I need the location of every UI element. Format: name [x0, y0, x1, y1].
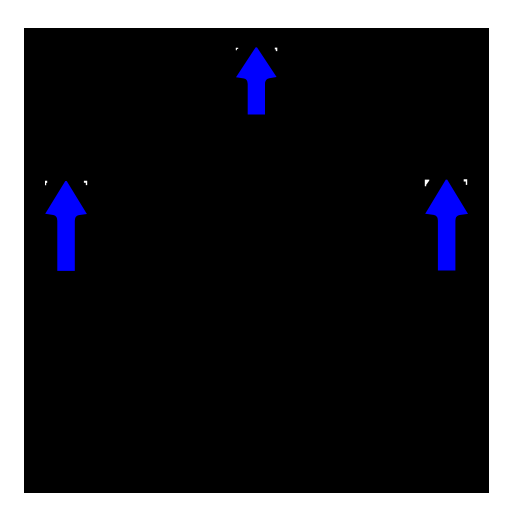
- blue up arrow, middle right: [425, 180, 468, 271]
- blue up arrow, middle left: [45, 181, 87, 271]
- white corner mark, left of left arrow tip: [45, 181, 47, 186]
- blue up arrow, top center: [236, 47, 277, 114]
- white corner mark, right of top arrow tip: [275, 48, 278, 52]
- white corner mark, left of right arrow tip: [425, 180, 430, 187]
- white corner mark, right of right arrow tip: [464, 179, 468, 185]
- white corner mark, left of top arrow tip: [236, 48, 238, 51]
- white corner mark, right of left arrow tip: [84, 181, 87, 185]
